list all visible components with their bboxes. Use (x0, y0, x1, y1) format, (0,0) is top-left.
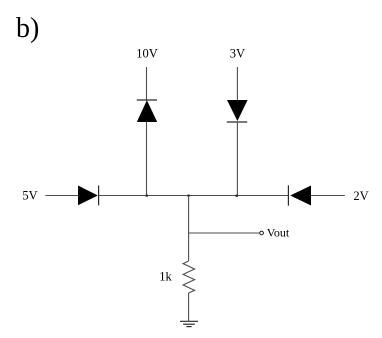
diode D4 (3V branch, pointing down) (227, 100, 248, 122)
diode D1 (5V input, pointing right) (78, 186, 99, 206)
label 1k (159, 270, 172, 284)
wire 10V source lead (146, 67, 148, 100)
label b) (16, 13, 39, 44)
diode D2 (2V input, pointing left) (288, 185, 311, 205)
label 5V (22, 189, 37, 203)
svg-text:b): b) (16, 13, 39, 44)
wire D1 cathode to node A (99, 195, 189, 197)
wire Vout tap horizontal (189, 232, 260, 234)
wire node A to D2 cathode (189, 195, 289, 197)
svg-text:10V: 10V (136, 47, 158, 61)
wire D4 cathode to bus (236, 122, 238, 196)
wire resistor R1 to ground (188, 293, 190, 321)
label 2V (353, 189, 368, 203)
wire D2 anode to 2V source (311, 195, 345, 197)
node C (junction of bus with 3V branch) (236, 195, 238, 197)
label 10V (136, 47, 158, 61)
label Vout (267, 225, 290, 239)
svg-text:3V: 3V (230, 47, 245, 61)
node B (junction of bus with output stem) (188, 195, 190, 197)
terminal Vout (open circle) (260, 231, 264, 235)
wire 3V source lead (236, 67, 238, 100)
svg-text:Vout: Vout (267, 225, 290, 239)
label 3V (230, 47, 245, 61)
svg-text:2V: 2V (353, 189, 368, 203)
diode D3 (10V branch, pointing up) (137, 100, 157, 122)
node A (junction of bus with 10V branch) (146, 195, 148, 197)
wire Vout tap to resistor R1 top (188, 233, 190, 261)
wire node B down to Vout tap (188, 196, 190, 234)
ground (180, 321, 198, 326)
wire D3 anode to node A (146, 122, 148, 196)
wire 5V source to D1 anode (45, 195, 78, 197)
svg-text:5V: 5V (22, 189, 37, 203)
resistor R1 (1k) zigzag (183, 261, 195, 293)
svg-text:1k: 1k (159, 270, 172, 284)
